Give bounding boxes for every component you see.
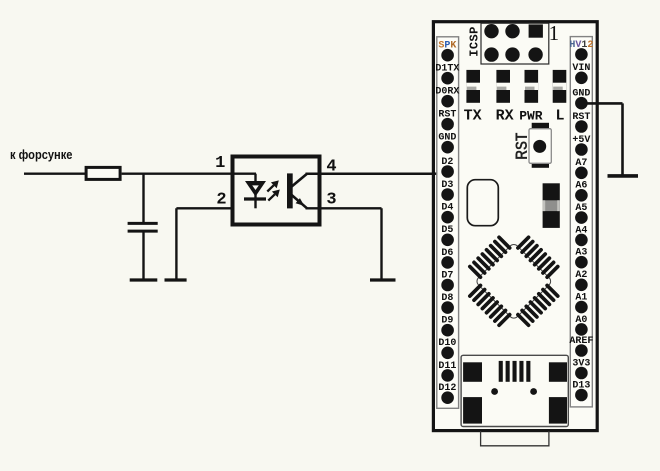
svg-text:PWR: PWR xyxy=(519,108,543,123)
wire xyxy=(142,233,144,280)
board pin D5 (left 9) xyxy=(441,225,454,246)
svg-text:1: 1 xyxy=(549,21,560,45)
capacitor C1 xyxy=(128,223,158,231)
board pin D0RX (left 3) xyxy=(435,87,459,108)
board pin RST (left 4) xyxy=(438,110,456,131)
wire xyxy=(24,172,86,174)
board pin D11 (left 15) xyxy=(438,361,456,382)
LED L xyxy=(553,70,567,103)
board pin A1 (right 12) xyxy=(575,293,588,314)
board pin HV12 (right 1) xyxy=(569,40,593,61)
ground xyxy=(608,174,639,178)
left pin header strip xyxy=(437,37,459,409)
board pin +5V (right 5) xyxy=(572,135,590,156)
svg-text:ICSP: ICSP xyxy=(467,26,481,56)
ICSP pin 6 xyxy=(484,47,498,61)
svg-text:2: 2 xyxy=(216,190,226,209)
crystal Y1 xyxy=(467,180,498,226)
ground xyxy=(165,278,187,281)
op-amp U1 optocoupler box xyxy=(233,157,320,225)
svg-text:RX: RX xyxy=(496,107,514,124)
board pin VIN (right 2) xyxy=(572,63,590,84)
ICSP pin 3 xyxy=(505,24,519,38)
right pin header strip xyxy=(570,37,592,407)
svg-text:к форсунке: к форсунке xyxy=(10,147,73,162)
LED RX xyxy=(496,70,510,103)
board pin A2 (right 11) xyxy=(575,270,588,291)
board pin A3 (right 10) xyxy=(575,248,588,269)
svg-text:L: L xyxy=(555,107,564,124)
board pin D7 (left 11) xyxy=(441,270,454,291)
component L1 (black body with grey band) xyxy=(543,183,560,228)
board pin D1TX (left 2) xyxy=(435,64,459,85)
board pin A7 (right 6) xyxy=(575,158,588,179)
svg-text:1: 1 xyxy=(215,154,225,173)
microcontroller U2 (rotated QFP) xyxy=(455,223,572,340)
resistor R1 xyxy=(86,167,120,179)
wire xyxy=(122,172,256,174)
board outline Arduino-nano module xyxy=(433,22,597,431)
board pin A4 (right 9) xyxy=(575,225,588,246)
ICSP pin 2 xyxy=(528,47,542,61)
board pin D3 (left 7) xyxy=(441,180,454,201)
board pin D12 (left 16) xyxy=(438,383,456,404)
ground xyxy=(370,278,396,281)
wire xyxy=(142,174,144,223)
pushbutton RST xyxy=(529,123,551,168)
ICSP pin 1 square pad xyxy=(529,24,543,37)
board pin GND (left 5) xyxy=(438,133,456,154)
board pin GND (right 3) xyxy=(572,89,590,110)
USB connector J1 xyxy=(461,355,568,426)
board pin AREF (right 14) xyxy=(569,336,593,357)
light arrow 2 xyxy=(268,190,280,201)
wire xyxy=(176,208,234,279)
light arrow 1 xyxy=(267,180,279,191)
ICSP pin 5 xyxy=(484,24,498,38)
board pin D8 (left 12) xyxy=(441,293,454,314)
wire xyxy=(306,172,434,175)
board pin 3V3 (right 15) xyxy=(572,358,590,379)
ICSP header box xyxy=(481,23,549,64)
LED TX xyxy=(466,70,480,103)
USB plug outline below board xyxy=(481,431,549,446)
board pin D2 (left 6) xyxy=(441,157,454,178)
diode LED inside U1 xyxy=(244,181,266,199)
wire xyxy=(254,174,256,209)
ground xyxy=(130,278,158,281)
LED PWR xyxy=(525,70,539,103)
board pin D13 (right 16) xyxy=(572,380,590,401)
board pin D10 (left 14) xyxy=(438,338,456,359)
board pin D9 (left 13) xyxy=(441,316,454,337)
board pin D4 (left 8) xyxy=(441,203,454,224)
wire xyxy=(306,208,382,279)
ICSP pin 4 xyxy=(505,47,519,61)
svg-text:3: 3 xyxy=(326,190,336,209)
board pin A6 (right 7) xyxy=(575,181,588,202)
wire GND to ground xyxy=(581,103,622,176)
wire (into D2) xyxy=(433,172,447,175)
board pin A5 (right 8) xyxy=(575,203,588,224)
svg-text:TX: TX xyxy=(464,107,482,124)
transistor Q1 phototransistor xyxy=(287,173,307,208)
board pin D6 (left 10) xyxy=(441,248,454,269)
board pin SPK (left 1) xyxy=(438,41,456,62)
board pin A0 (right 13) xyxy=(575,315,588,336)
board pin RST (right 4) xyxy=(572,112,590,133)
